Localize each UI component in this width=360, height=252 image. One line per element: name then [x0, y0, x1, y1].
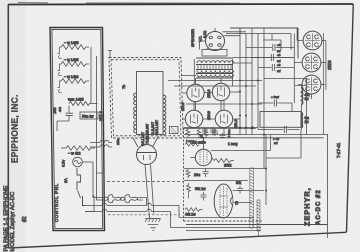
wire line y181 dashed	[107, 181, 184, 183]
power cord twisted pair	[104, 195, 138, 203]
wire ballast leads	[133, 136, 159, 147]
capacitor C14 20mf	[258, 95, 292, 112]
wire mid hop line y142	[90, 140, 112, 142]
tube V8 25Z6 rectifier	[298, 75, 325, 94]
coil form box	[137, 72, 164, 135]
wire line y230	[186, 230, 261, 232]
wire grid h y137 long	[184, 137, 324, 139]
wire line y211	[85, 209, 261, 227]
wire tone bus	[90, 47, 92, 103]
margin title text EPIPHONE, INC. (rotated)	[11, 94, 20, 163]
wire right bus x266	[266, 135, 270, 206]
wire mid hop line y147	[90, 145, 112, 147]
wire right down x323	[322, 33, 324, 135]
wire speaker left lead	[200, 41, 206, 50]
resistor R9 bias	[204, 129, 208, 138]
antenna stub	[108, 51, 112, 58]
margin stamp PA PAGE 1-1 EPIPHONE (rotated)	[4, 186, 29, 252]
capacitor C11 8mf	[252, 53, 294, 63]
wire B minus y158	[266, 130, 301, 159]
wire vertical bus x252	[251, 28, 253, 135]
resistor R2	[58, 58, 90, 76]
tube V10 twin triode	[214, 184, 233, 218]
wire vertical bus x240	[239, 28, 241, 135]
wire speaker right leads	[223, 32, 247, 36]
resistor R12 plate load	[212, 158, 234, 168]
junction dots audio	[222, 126, 267, 191]
resistor R3	[58, 75, 90, 93]
resistor R11	[186, 128, 190, 139]
wire audio top bus y127	[184, 127, 258, 129]
capacitor C10 8mf	[246, 43, 294, 53]
wire rectifier right bus	[325, 41, 326, 91]
wire audio out y224	[186, 224, 328, 226]
wire switch to cord	[83, 196, 95, 212]
wire vertical bus x264	[263, 28, 265, 168]
wire tube top leads	[194, 78, 224, 110]
wire speaker top lead	[214, 28, 216, 31]
coil L3	[134, 121, 137, 133]
coil L1	[134, 93, 137, 105]
tube V5 25L6	[215, 110, 232, 127]
wire grid h y80	[168, 80, 262, 82]
wire grid h y134 long	[184, 134, 328, 136]
wire audio y202	[233, 202, 252, 204]
wire right bus x270	[270, 135, 272, 151]
wire right down x327	[327, 135, 329, 239]
resistor R1 (tone bank top)	[58, 41, 90, 59]
wire right block h y85	[295, 85, 307, 87]
speaker plug P1	[206, 32, 225, 51]
tube V2 25L6	[187, 84, 204, 101]
capacitor C17	[210, 128, 216, 136]
capacitor C12 8mf	[258, 63, 294, 73]
resistor R14 vertical	[187, 183, 191, 199]
capacitor C9 bias	[212, 129, 218, 137]
power cord pair	[93, 198, 147, 206]
capacitor C18	[220, 133, 226, 138]
wire audio y150	[211, 150, 266, 152]
scan noise overlay	[0, 0, 1, 1]
ballast tube V1	[137, 145, 157, 165]
wire lamp to cord	[82, 56, 103, 200]
coil L4	[163, 95, 166, 135]
tube V4 25L6	[185, 110, 202, 127]
wire grid h y128	[184, 128, 256, 130]
wire grid h y86	[174, 85, 256, 87]
wire y78	[264, 78, 307, 80]
wire tube bottom leads	[194, 101, 224, 135]
wire vertical bus x258	[257, 34, 259, 130]
capacitor C15	[258, 126, 300, 145]
output transformer T1	[181, 50, 234, 87]
tone pot VR2	[257, 200, 260, 236]
capacitor C1 .005	[53, 106, 73, 132]
wire audio y168	[184, 168, 266, 170]
resistor box R16	[170, 127, 179, 134]
wire audio y180	[184, 180, 248, 182]
wire transformer right lead	[233, 58, 295, 64]
wire audio y190	[233, 190, 264, 192]
tube V7 25Z6 rectifier	[294, 53, 325, 72]
wire line y214 dashed	[108, 214, 180, 216]
control panel box	[50, 28, 105, 231]
wire tube V8 down	[302, 86, 312, 130]
coil L2	[134, 107, 137, 119]
tube V9 6Q7	[190, 137, 211, 166]
pilot lamp 6.3V	[62, 157, 83, 167]
wire top bus y33	[226, 34, 291, 51]
wire grid h y104	[186, 103, 262, 105]
wire top bus y28	[230, 28, 298, 58]
wire output tube stubs row2	[183, 118, 240, 120]
wire cap bus x294	[294, 28, 306, 135]
junction dots	[239, 80, 265, 136]
wire vertical bus x246	[245, 34, 247, 135]
resistor R8 bias	[197, 129, 201, 138]
capacitor C20	[201, 192, 207, 201]
resistor R15	[185, 208, 203, 217]
capacitor C19	[203, 169, 209, 178]
volume pot VR1	[250, 168, 254, 228]
resistor R6 hi-lo pot	[61, 146, 95, 156]
tube V6 25Z6 rectifier	[297, 31, 326, 50]
audio section shield (dashed)	[184, 128, 263, 221]
ground	[145, 219, 160, 231]
wire ballast down pair	[145, 164, 154, 218]
resistor R17 grid	[185, 139, 199, 146]
shield box (dashed) around coils	[109, 58, 183, 139]
tube V3 25L6	[212, 83, 229, 100]
capacitor C21	[237, 186, 243, 194]
choke CH2	[302, 113, 310, 128]
wire audio bottom y218	[184, 217, 254, 219]
resistor R4 w.w.	[68, 98, 98, 106]
choke CH1	[302, 88, 311, 104]
fuse 2A switch	[64, 168, 85, 206]
resistor R5 box 50m	[80, 112, 98, 119]
wire rectifier left verticals	[297, 28, 298, 59]
wire line y205	[85, 203, 184, 217]
resistor R13	[186, 169, 190, 179]
capacitor C16	[202, 128, 208, 136]
resistor box R10 field coil	[260, 112, 301, 128]
wire output tube stubs row1	[183, 92, 240, 93]
